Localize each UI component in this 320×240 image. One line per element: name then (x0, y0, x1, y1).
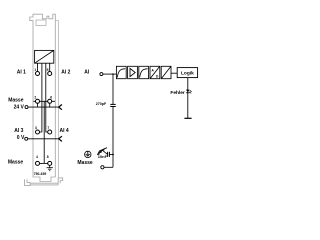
wire Masse to vertical (104, 166, 113, 168)
chassis earth hatched (97, 148, 107, 155)
terminal Masse analog (101, 166, 104, 169)
wire to logic (171, 72, 177, 74)
svg-text:AI: AI (84, 70, 90, 76)
svg-text:AI 3: AI 3 (14, 128, 23, 134)
svg-text:Masse: Masse (8, 98, 24, 104)
filter block 1 (116, 66, 126, 78)
node 10nF junction (112, 154, 114, 156)
node input branch (112, 73, 114, 75)
svg-text:Logik: Logik (181, 70, 194, 76)
svg-text:Masse: Masse (77, 160, 93, 166)
wire 10nF to chassis (103, 151, 107, 155)
power jumper contact 0V (59, 136, 62, 141)
wire AI3 channel (39, 63, 42, 132)
wire row2 terminal link (33, 100, 55, 102)
A/D converter block (150, 66, 160, 78)
module latch slot detail (36, 20, 46, 26)
capacitor 10nF (108, 152, 110, 157)
svg-text:750-459: 750-459 (34, 172, 47, 176)
svg-text:Fehler: Fehler (170, 90, 185, 96)
wire terminal6 drop (49, 103, 51, 107)
terminal 5 (48, 72, 52, 76)
wire 24V feed-through (28, 106, 59, 108)
svg-text:AI 2: AI 2 (61, 70, 70, 76)
terminal 7 (48, 130, 52, 134)
svg-text:2: 2 (34, 96, 36, 100)
svg-text:8: 8 (47, 155, 49, 159)
earth in circle symbol (85, 151, 91, 157)
svg-text:3: 3 (35, 126, 37, 130)
wire AI input line (103, 73, 117, 75)
filter block 2 (139, 66, 149, 78)
terminal 24V (25, 106, 28, 109)
terminal 6 (48, 99, 52, 103)
terminal 8 (48, 161, 52, 165)
module 750-459 body outline (30, 14, 56, 181)
power jumper contact 24V (59, 105, 62, 110)
logic block Logik (177, 68, 197, 78)
svg-text:270pF: 270pF (96, 102, 107, 106)
svg-text:Masse: Masse (8, 160, 24, 166)
ground symbol terminal 8 (47, 165, 53, 170)
capacitor 270pF (110, 104, 115, 106)
module front contour line (55, 21, 58, 178)
terminal AI input (100, 73, 103, 76)
wire 0V feed-through (28, 138, 59, 140)
bus termination bar (184, 117, 191, 119)
wire below capacitor (112, 107, 114, 168)
wire AI4 channel (46, 63, 48, 132)
wire masse link row2-row4 (43, 101, 45, 163)
terminal 0V (25, 137, 28, 140)
wire pin4 to terminal 5 (49, 63, 51, 71)
amplifier block (128, 66, 138, 78)
terminal 1 (36, 72, 40, 76)
svg-text:10nF: 10nF (98, 154, 108, 159)
A/D converter block U1 inside module (35, 50, 54, 63)
wire pin1 to terminal 1 (37, 63, 39, 71)
terminal 3 (36, 130, 40, 134)
svg-text:0 V: 0 V (17, 135, 25, 141)
svg-text:1: 1 (34, 68, 36, 72)
wire terminal2 drop (37, 103, 39, 107)
DIN rail profile (25, 178, 63, 186)
wire to 10nF (109, 154, 113, 156)
LED Fehler (186, 90, 192, 94)
svg-text:6: 6 (50, 96, 52, 100)
wire Logik down (187, 78, 189, 119)
svg-text:5: 5 (47, 68, 49, 72)
svg-text:AI 1: AI 1 (17, 70, 26, 76)
isolation block (161, 66, 171, 78)
wire branch down (112, 74, 114, 104)
svg-text:7: 7 (47, 126, 49, 130)
wire row4 terminal link (39, 162, 47, 164)
svg-text:24 V: 24 V (14, 105, 25, 111)
terminal 2 (36, 99, 40, 103)
terminal 4 (36, 161, 40, 165)
svg-text:AI 4: AI 4 (60, 128, 69, 134)
svg-text:4: 4 (36, 155, 38, 159)
